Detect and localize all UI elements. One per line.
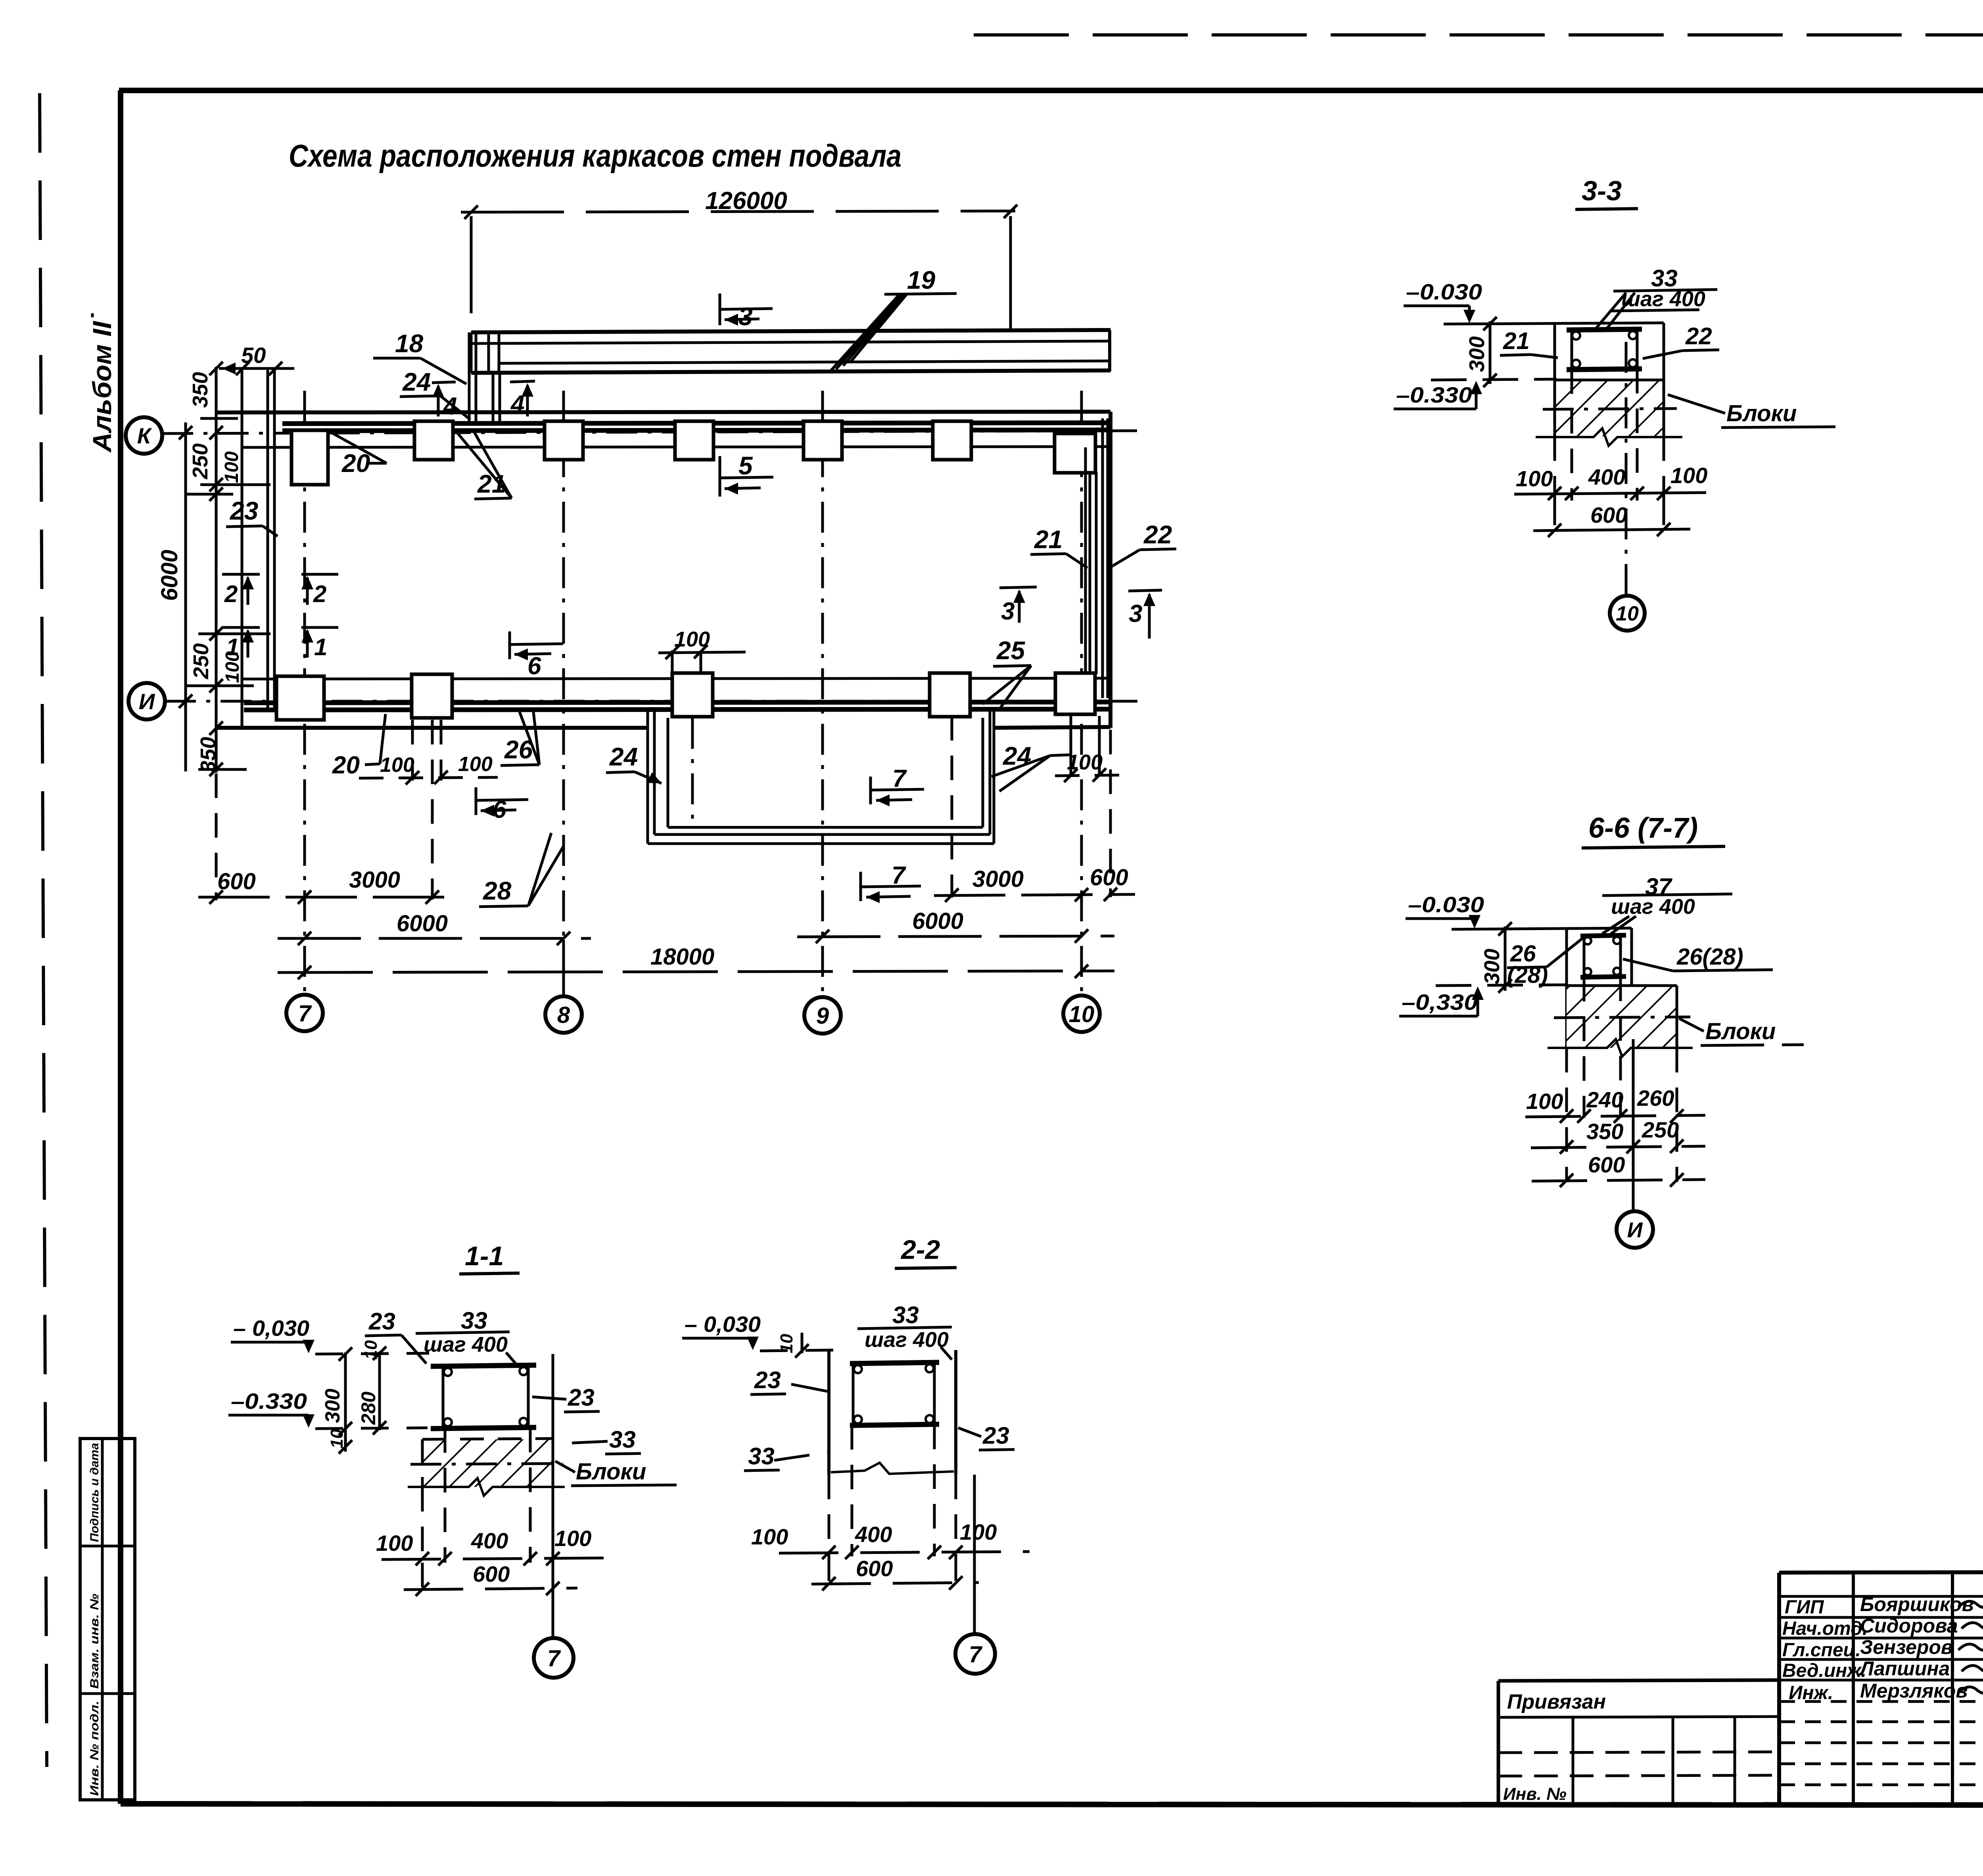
svg-text:23: 23 <box>368 1308 395 1335</box>
svg-text:–0.330: –0.330 <box>231 1389 307 1414</box>
svg-text:18: 18 <box>395 329 424 358</box>
svg-text:600: 600 <box>473 1561 510 1586</box>
svg-text:250: 250 <box>189 643 213 679</box>
svg-text:23: 23 <box>982 1422 1009 1449</box>
svg-text:10: 10 <box>1069 1001 1095 1027</box>
svg-text:Взам. инв. №: Взам. инв. № <box>88 1594 101 1689</box>
svg-text:100: 100 <box>1670 463 1707 488</box>
svg-text:100: 100 <box>751 1524 788 1549</box>
svg-text:21: 21 <box>1034 525 1062 554</box>
svg-text:9: 9 <box>816 1003 829 1029</box>
svg-text:100: 100 <box>458 753 493 776</box>
svg-text:100: 100 <box>960 1519 997 1544</box>
svg-text:100: 100 <box>1526 1089 1563 1114</box>
svg-text:1: 1 <box>314 634 327 660</box>
svg-text:100: 100 <box>1067 750 1103 774</box>
svg-text:23: 23 <box>754 1367 781 1393</box>
svg-text:1-1: 1-1 <box>465 1241 504 1271</box>
svg-text:Блоки: Блоки <box>1726 401 1797 426</box>
svg-text:400: 400 <box>1588 464 1625 489</box>
svg-text:6000: 6000 <box>912 908 963 934</box>
svg-text:100: 100 <box>554 1526 591 1551</box>
svg-text:22: 22 <box>1143 520 1172 549</box>
svg-text:24: 24 <box>1003 742 1031 770</box>
svg-text:600: 600 <box>217 869 256 894</box>
svg-text:126000: 126000 <box>705 187 787 215</box>
svg-text:19: 19 <box>907 266 936 294</box>
svg-text:–0.030: –0.030 <box>1406 279 1482 304</box>
svg-text:280: 280 <box>357 1391 380 1425</box>
svg-text:7: 7 <box>298 1001 312 1026</box>
svg-text:7: 7 <box>892 862 906 889</box>
svg-text:2-2: 2-2 <box>900 1235 940 1265</box>
svg-text:Сидорова: Сидорова <box>1860 1615 1958 1637</box>
svg-text:–0.330: –0.330 <box>1396 382 1472 407</box>
svg-text:5: 5 <box>738 451 753 480</box>
svg-text:Блоки: Блоки <box>576 1459 646 1485</box>
svg-text:25: 25 <box>996 636 1026 665</box>
svg-text:Инж.: Инж. <box>1789 1682 1833 1703</box>
svg-text:– 0,030: – 0,030 <box>233 1316 309 1341</box>
svg-text:– 0,030: – 0,030 <box>685 1312 761 1337</box>
svg-text:18000: 18000 <box>650 944 714 970</box>
svg-text:100: 100 <box>221 451 242 483</box>
svg-text:Зензеров: Зензеров <box>1860 1636 1953 1658</box>
svg-text:3000: 3000 <box>349 867 400 893</box>
svg-text:Нач.отд.: Нач.отд. <box>1782 1618 1868 1639</box>
svg-text:50: 50 <box>241 343 266 368</box>
svg-text:6-6 (7-7): 6-6 (7-7) <box>1588 812 1698 844</box>
svg-text:Гл.спец.: Гл.спец. <box>1782 1640 1861 1661</box>
svg-text:24: 24 <box>402 368 431 396</box>
svg-text:20: 20 <box>332 752 360 779</box>
svg-text:Вед.инж.: Вед.инж. <box>1782 1660 1866 1681</box>
svg-text:И: И <box>139 689 155 714</box>
svg-text:100: 100 <box>380 754 414 777</box>
svg-text:600: 600 <box>1090 865 1128 890</box>
svg-text:–0,330: –0,330 <box>1402 990 1478 1015</box>
svg-text:3: 3 <box>1129 600 1142 627</box>
svg-text:8: 8 <box>557 1002 570 1028</box>
svg-text:26(28): 26(28) <box>1676 944 1743 970</box>
svg-text:33: 33 <box>748 1443 775 1469</box>
svg-text:600: 600 <box>1590 503 1627 528</box>
svg-text:1: 1 <box>226 634 239 660</box>
svg-text:шаг 400: шаг 400 <box>424 1333 508 1356</box>
svg-text:240: 240 <box>1586 1087 1623 1112</box>
svg-text:10: 10 <box>1616 602 1639 625</box>
svg-text:350: 350 <box>1586 1119 1623 1144</box>
svg-text:7: 7 <box>547 1646 561 1671</box>
svg-text:2: 2 <box>313 581 326 607</box>
svg-text:Подпись и дата: Подпись и дата <box>88 1443 101 1542</box>
svg-text:Блоки: Блоки <box>1705 1019 1776 1044</box>
svg-text:И: И <box>1627 1218 1643 1242</box>
svg-text:3: 3 <box>738 302 753 331</box>
svg-text:2: 2 <box>224 581 238 607</box>
svg-text:3-3: 3-3 <box>1582 175 1622 206</box>
svg-text:400: 400 <box>471 1528 508 1553</box>
svg-text:6: 6 <box>527 652 541 680</box>
svg-text:400: 400 <box>855 1522 892 1547</box>
svg-text:21: 21 <box>1503 328 1530 354</box>
svg-text:350: 350 <box>188 372 212 408</box>
svg-text:Лапшина: Лапшина <box>1859 1657 1950 1680</box>
svg-text:К: К <box>137 423 152 448</box>
svg-text:7: 7 <box>892 765 907 792</box>
svg-text:6: 6 <box>493 796 506 823</box>
svg-text:260: 260 <box>1637 1086 1674 1111</box>
svg-text:33: 33 <box>609 1426 636 1453</box>
svg-text:23: 23 <box>568 1384 595 1411</box>
svg-text:20: 20 <box>341 449 370 478</box>
svg-text:33: 33 <box>461 1307 487 1334</box>
svg-text:250: 250 <box>188 443 212 480</box>
svg-text:250: 250 <box>1642 1117 1679 1142</box>
svg-text:600: 600 <box>856 1556 893 1581</box>
svg-text:28: 28 <box>483 877 512 905</box>
svg-text:600: 600 <box>1588 1152 1625 1177</box>
svg-text:Мерзляков: Мерзляков <box>1860 1680 1968 1702</box>
svg-text:7: 7 <box>969 1642 983 1667</box>
svg-text:10: 10 <box>777 1334 796 1353</box>
svg-text:300: 300 <box>1480 949 1504 984</box>
svg-text:Инв. № подл.: Инв. № подл. <box>88 1701 101 1796</box>
svg-text:33: 33 <box>892 1302 919 1328</box>
svg-text:300: 300 <box>1465 336 1489 372</box>
svg-text:Инв. №: Инв. № <box>1503 1784 1567 1804</box>
svg-text:100: 100 <box>1516 466 1553 491</box>
svg-text:–0.030: –0.030 <box>1408 892 1484 917</box>
svg-text:3000: 3000 <box>972 866 1024 892</box>
svg-text:Привязан: Привязан <box>1507 1690 1606 1713</box>
svg-text:3: 3 <box>1001 598 1015 625</box>
svg-text:6000: 6000 <box>157 550 182 601</box>
svg-text:100: 100 <box>376 1531 413 1556</box>
svg-text:ГИП: ГИП <box>1785 1597 1824 1618</box>
svg-text:6000: 6000 <box>397 911 448 936</box>
svg-text:Альбом II: Альбом II <box>87 320 117 453</box>
svg-text:300: 300 <box>321 1389 344 1423</box>
svg-text:24: 24 <box>609 742 638 771</box>
svg-text:4: 4 <box>510 391 524 418</box>
svg-text:22: 22 <box>1685 323 1712 349</box>
svg-text:350: 350 <box>196 737 220 773</box>
svg-text:Схема расположения каркасов ст: Схема расположения каркасов стен подвала <box>289 138 901 173</box>
svg-text:шаг 400: шаг 400 <box>865 1328 949 1352</box>
svg-text:23: 23 <box>230 497 258 525</box>
svg-text:Бояршиков: Бояршиков <box>1860 1593 1974 1615</box>
svg-text:шаг 400: шаг 400 <box>1611 895 1695 919</box>
